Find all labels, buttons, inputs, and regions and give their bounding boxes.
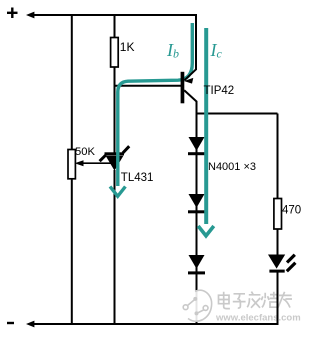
bottom rail left arrowhead (26, 321, 34, 328)
svg-text:50K: 50K (75, 146, 95, 158)
wire: LED to bottom rail (277, 273, 279, 325)
wire: base node down to TL431 (114, 86, 116, 153)
svg-text:TIP42: TIP42 (204, 85, 235, 97)
TL431 U1 (100, 146, 130, 170)
resistor R3 470 (274, 199, 282, 230)
watermark logo (183, 290, 216, 322)
wire: collector down + diode chain to bottom rail (196, 101, 198, 324)
bottom rail wire (33, 323, 279, 325)
svg-text:www.elecfans.com: www.elecfans.com (215, 313, 301, 324)
diode D1 (188, 137, 205, 155)
svg-text:N4001 ×3: N4001 ×3 (208, 161, 256, 173)
wire: pot branch from top wire (71, 15, 73, 150)
watermark text dian zi fa shao you (219, 292, 293, 309)
wire: 1K branch from top wire (114, 15, 116, 38)
wire: base wire (115, 85, 182, 87)
resistor R1 1K (111, 38, 119, 68)
wire: 1K bottom to base node (114, 67, 116, 86)
svg-text:470: 470 (282, 205, 301, 217)
+ supply terminal (7, 8, 18, 19)
svg-text:TL431: TL431 (121, 172, 154, 184)
svg-text:1K: 1K (120, 40, 135, 54)
LED D4 (268, 255, 295, 273)
wire: collector node to right branch (197, 113, 278, 115)
top wire (33, 15, 196, 70)
wire: pot bottom to bottom rail (71, 179, 73, 324)
wire: right branch down to 470 (277, 114, 279, 199)
top wire left arrowhead (26, 12, 34, 19)
current arrow Ib (118, 23, 193, 186)
wire: 470 to LED (277, 229, 279, 255)
potentiometer R2 50K (68, 150, 75, 179)
pot wiper arrow (80, 162, 115, 164)
current arrow Ic (204, 28, 208, 224)
wire: TL431 anode to bottom rail (114, 170, 116, 324)
transistor Q1 TIP42 (181, 69, 197, 103)
diode D2 (188, 194, 205, 213)
- supply terminal (7, 322, 14, 324)
diode D3 (188, 255, 205, 274)
